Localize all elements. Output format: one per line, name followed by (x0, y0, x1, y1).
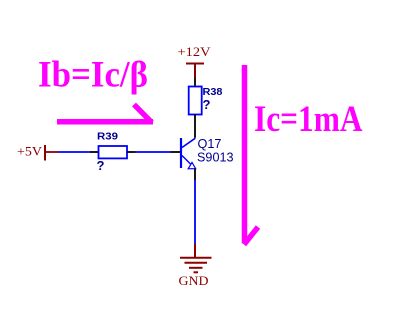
power +5V (17, 144, 58, 161)
resistor R39 pin 1 (90, 151, 99, 153)
resistor R39 body (99, 146, 128, 158)
arrow (collector current, pointing down) (244, 65, 258, 245)
resistor R39 pin 2 (127, 151, 136, 153)
svg-text:Ic=1mA: Ic=1mA (254, 99, 363, 140)
transistor Q17 base pin (171, 151, 181, 153)
ground GND (180, 244, 212, 272)
svg-text:S9013: S9013 (197, 150, 234, 165)
svg-text:+5V: +5V (17, 144, 43, 159)
svg-text:R39: R39 (97, 132, 118, 143)
transistor Q17 emitter pin (194, 169, 196, 181)
wire R39 to Q17 base (136, 151, 171, 153)
wire emitter to ground (194, 180, 196, 244)
wire +5V to R39 (58, 151, 90, 153)
resistor R38 pin 2 / transistor collector pin wire (194, 115, 196, 138)
svg-text:+12V: +12V (178, 44, 212, 59)
svg-text:Ib=Ic/β: Ib=Ic/β (38, 55, 148, 96)
svg-text:GND: GND (179, 273, 209, 288)
resistor R38 pin 1 (194, 78, 196, 87)
svg-text:?: ? (203, 97, 211, 112)
power +12V (178, 44, 212, 78)
arrow (base current, pointing right) (57, 105, 153, 123)
svg-text:?: ? (97, 158, 105, 173)
resistor R38 body (189, 87, 202, 115)
transistor Q17 body (181, 138, 196, 169)
